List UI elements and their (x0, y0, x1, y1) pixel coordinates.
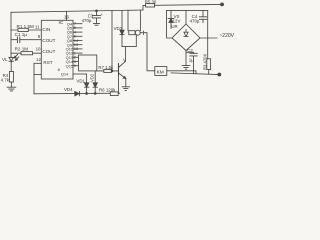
wire AC right vertex (200, 37, 217, 39)
svg-text:VD1: VD1 (76, 79, 85, 84)
svg-text:VD2: VD2 (90, 73, 95, 82)
resistor R5 (143, 4, 221, 10)
node Q14 (73, 61, 79, 63)
wire VL to R4 (10, 63, 12, 72)
node Q8 (73, 40, 82, 42)
svg-text:VD3: VD3 (114, 26, 123, 31)
terminal top right (221, 3, 224, 6)
wire KM right (167, 71, 196, 74)
svg-text:VL: VL (2, 57, 8, 62)
wire bridge bottom to ground (185, 51, 187, 66)
diode VD1 (84, 74, 88, 94)
diode VD4 (75, 91, 80, 95)
IC U1 box (41, 20, 73, 79)
relay contact K coil (129, 31, 135, 35)
svg-text:CIN: CIN (42, 27, 50, 32)
svg-text:C2: C2 (187, 48, 193, 53)
svg-text:COUT: COUT (42, 49, 55, 54)
zener VS (168, 11, 174, 29)
node Q6 (73, 31, 82, 33)
resistor R7 (97, 69, 119, 72)
diode VD3 (120, 10, 124, 46)
terminal bottom right (218, 73, 221, 76)
ground left (7, 87, 16, 91)
wire bottom bus (34, 92, 120, 95)
wire contact to KM (140, 31, 155, 71)
wire left rail (10, 12, 12, 56)
svg-text:R3 470K: R3 470K (202, 53, 207, 70)
IC output pins Q4-Q10,Q12-Q14 (61, 21, 87, 77)
svg-text:VD4: VD4 (64, 87, 73, 92)
capacitor C1 (11, 37, 41, 43)
node Q15 tick (73, 65, 79, 67)
wire DC right rail (207, 11, 209, 59)
svg-text:470µ: 470µ (190, 19, 200, 24)
wire right bus (167, 10, 208, 12)
block U2 diode box (79, 55, 97, 71)
resistor R3 (207, 59, 211, 70)
resistor R4 (9, 72, 13, 83)
svg-text:12: 12 (36, 57, 41, 62)
svg-text:R6 120k: R6 120k (99, 88, 116, 93)
svg-text:IC: IC (59, 20, 64, 26)
resistor R1 (11, 28, 41, 31)
resistor R2 (11, 52, 41, 55)
photoresistor VL (9, 54, 19, 62)
svg-text:470µ: 470µ (82, 18, 92, 23)
wire top bus (11, 10, 143, 12)
node Q9 (73, 44, 82, 46)
wire rail x112 (111, 11, 113, 71)
transistor V (119, 61, 126, 78)
relay contact lamp (135, 30, 140, 35)
wire bottom right line (171, 73, 219, 75)
resistor R6 (110, 92, 118, 96)
node Q5 (73, 27, 82, 29)
wire pin12 reset (34, 63, 41, 94)
svg-text:~220V: ~220V (219, 33, 234, 39)
capacitor C3 (93, 11, 101, 25)
svg-text:R2 1M: R2 1M (15, 47, 29, 52)
pin 16 stub (66, 11, 68, 20)
wire base pulldown (118, 75, 120, 93)
diode VD2 (93, 71, 97, 94)
svg-text:Q15: Q15 (66, 63, 74, 68)
relay coil KM (155, 67, 167, 76)
wire pin8 stub (34, 74, 41, 76)
node Q7 (73, 35, 82, 37)
wire collector (125, 47, 127, 62)
capacitor C4 (199, 11, 206, 23)
node Q10 (73, 48, 82, 50)
svg-text:RST: RST (43, 60, 52, 65)
wire R4 to ground (10, 82, 12, 87)
wire R3 bottom (208, 70, 210, 75)
svg-text:KM: KM (157, 69, 164, 75)
svg-text:C1 1µ: C1 1µ (15, 32, 28, 37)
ground emitter (122, 87, 129, 91)
svg-text:11: 11 (35, 25, 40, 30)
node junction dots (86, 93, 88, 95)
wire emitter to ground (125, 79, 127, 87)
svg-text:1µ: 1µ (189, 58, 194, 63)
bridge rectifier UR (172, 11, 200, 51)
node Q13 (73, 56, 79, 58)
svg-text:R1 1.5M: R1 1.5M (17, 24, 35, 29)
node Q12 (73, 52, 82, 54)
svg-text:16: 16 (64, 15, 69, 20)
wire contact drop (139, 10, 141, 30)
svg-text:R5 30: R5 30 (145, 0, 157, 5)
capacitor C2 (186, 52, 197, 73)
svg-text:Q14: Q14 (61, 72, 69, 77)
svg-text:12V: 12V (173, 18, 181, 23)
svg-text:10: 10 (36, 47, 41, 52)
svg-text:4.7k: 4.7k (1, 78, 10, 83)
svg-text:UR: UR (171, 24, 177, 29)
node Q14 output row (73, 73, 87, 75)
ground bridge (182, 66, 190, 70)
node Q4 (73, 23, 82, 25)
wire contact feed (127, 10, 129, 30)
wire collector node (122, 35, 136, 46)
wire right rail left (167, 11, 173, 38)
svg-text:COUT: COUT (42, 38, 55, 43)
